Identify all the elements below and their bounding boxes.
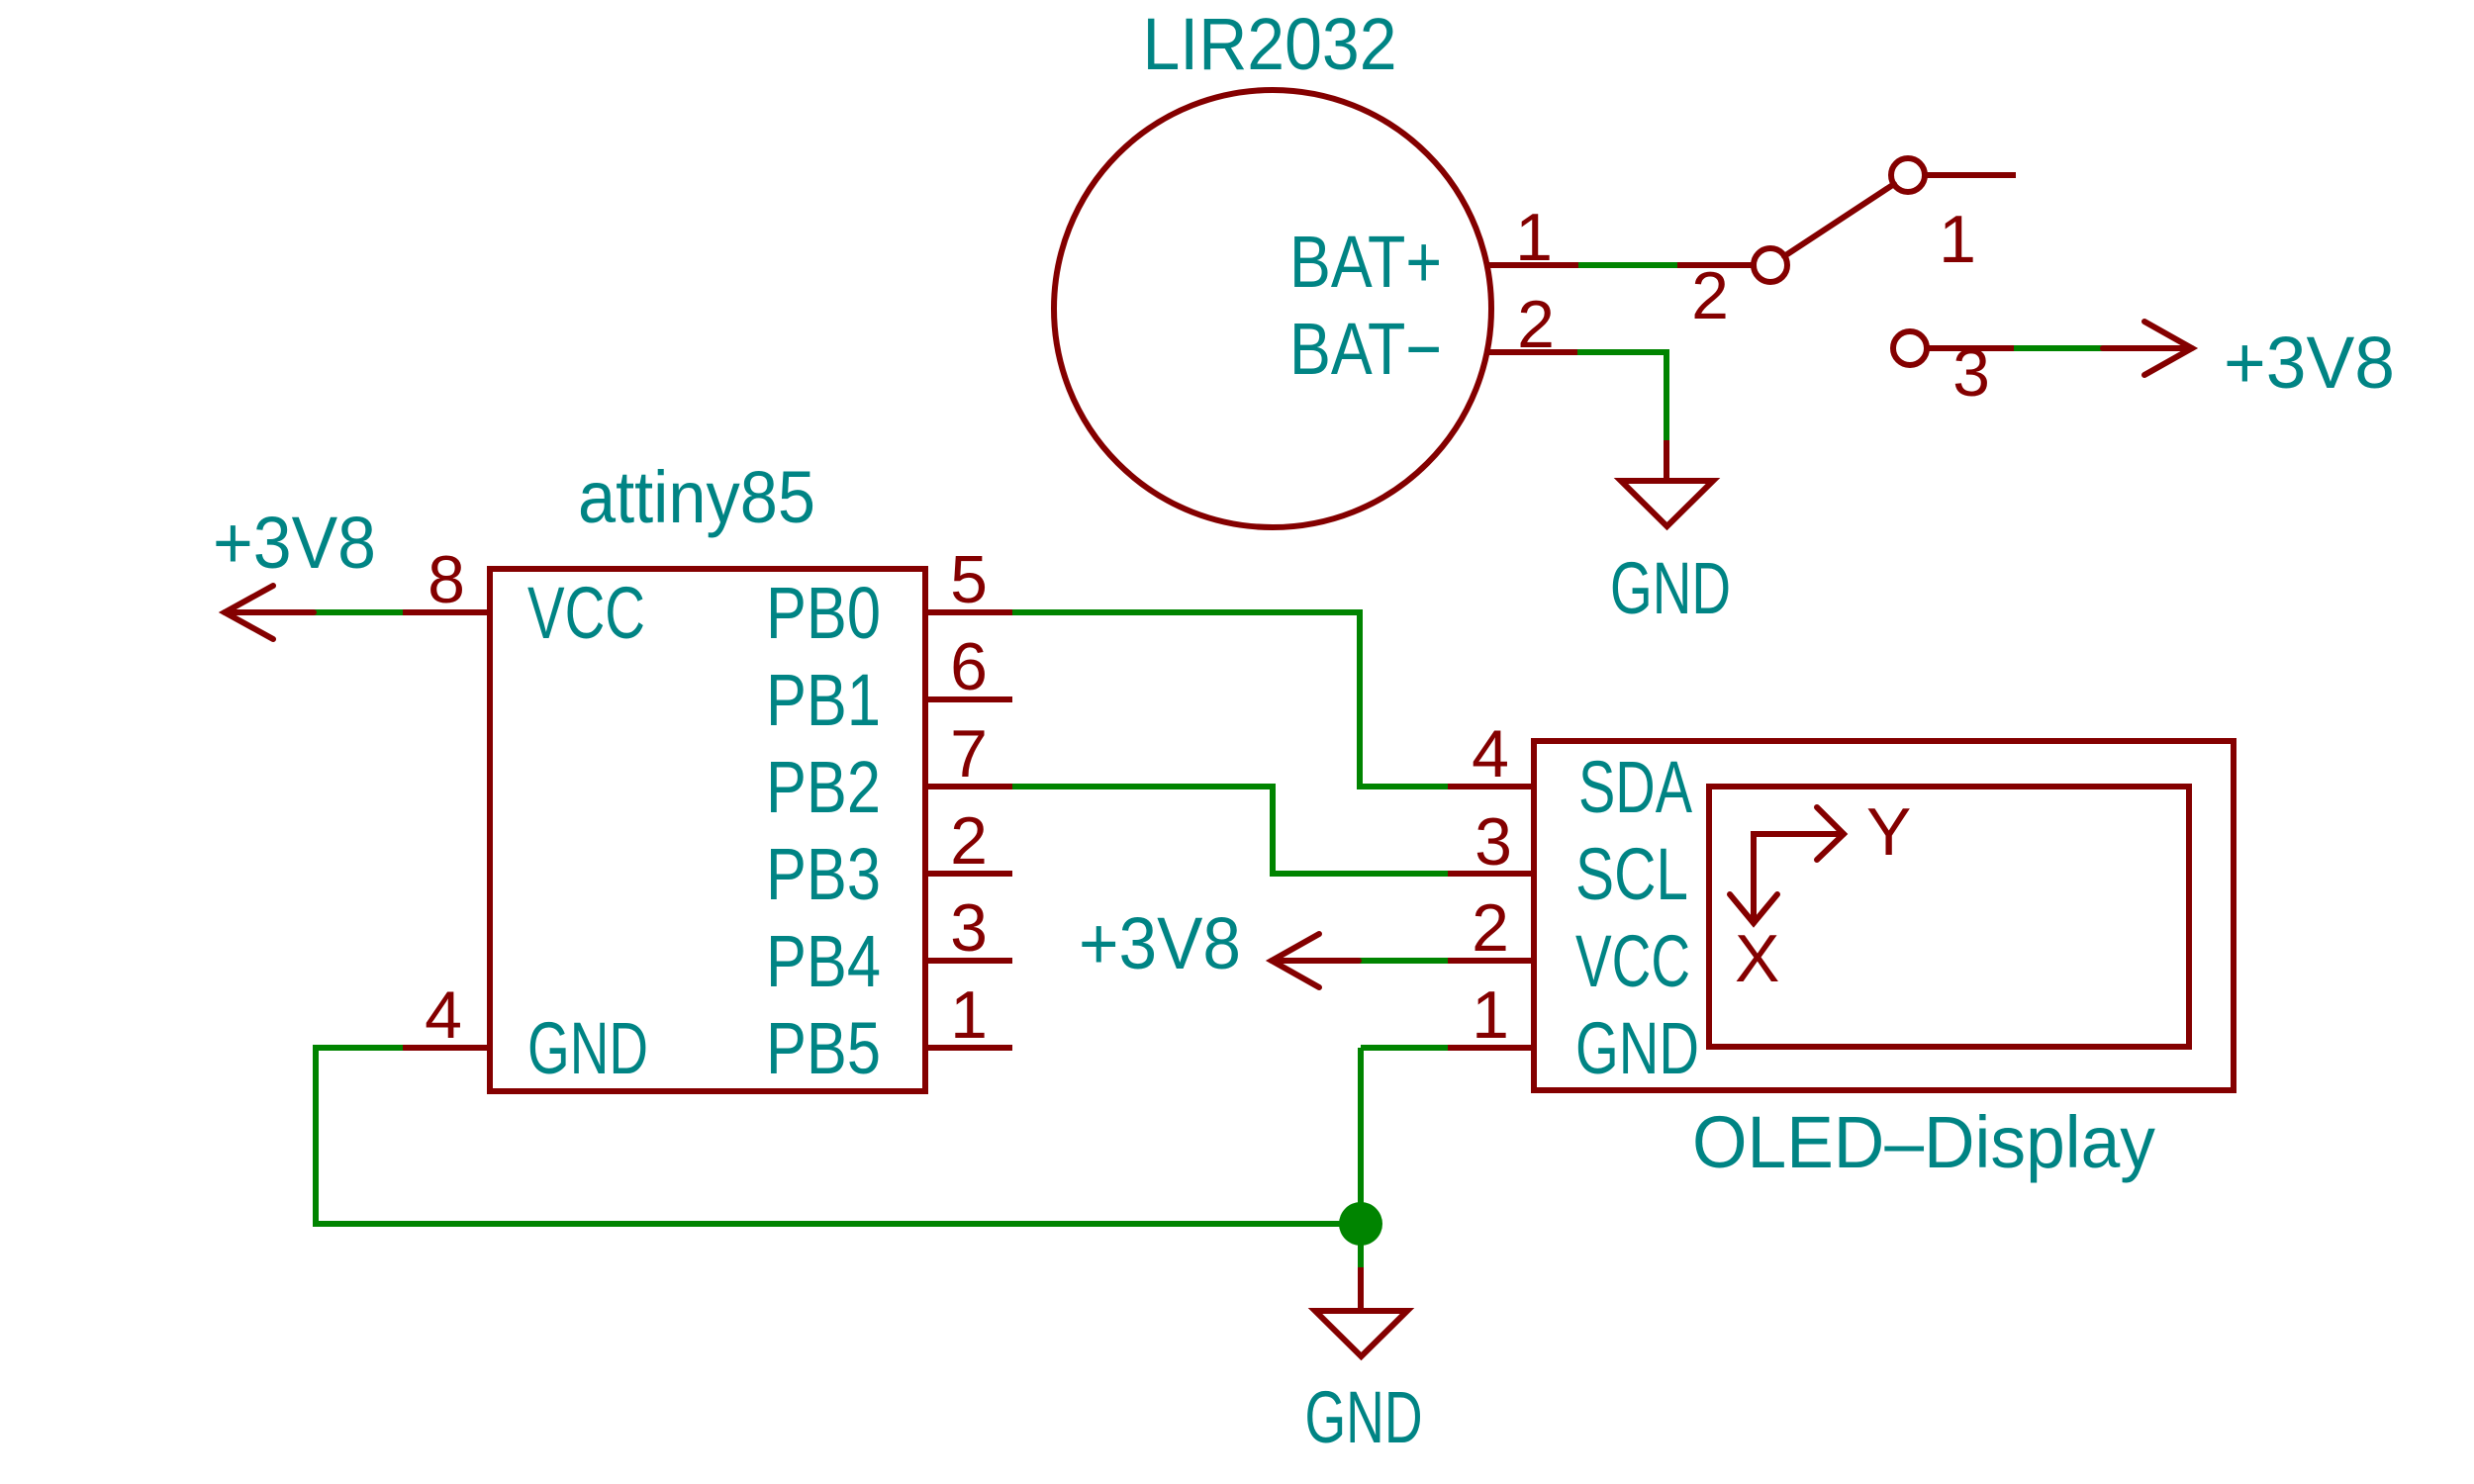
- svg-text:2: 2: [950, 803, 988, 879]
- svg-text:2: 2: [1472, 890, 1509, 966]
- battery pin 1: [1487, 262, 1578, 268]
- svg-text:1: 1: [1939, 202, 1976, 277]
- svg-text:GND: GND: [1575, 1007, 1699, 1089]
- svg-text:LIR2032: LIR2032: [1143, 3, 1397, 85]
- OLED pin 3 SCL: [1448, 871, 1534, 877]
- wire GND net attiny to junction: [316, 1048, 1361, 1224]
- svg-text:8: 8: [428, 542, 465, 617]
- svg-text:1: 1: [1472, 977, 1509, 1053]
- wire PB2 to OLED SCL: [1012, 787, 1448, 874]
- svg-text:PB1: PB1: [766, 659, 881, 741]
- svg-text:+3V8: +3V8: [2224, 322, 2395, 404]
- OLED display screen rectangle: [1709, 787, 2189, 1047]
- svg-text:BAT−: BAT−: [1289, 308, 1442, 390]
- wire switch pin 3 to +3V8: [2014, 345, 2103, 351]
- svg-text:PB3: PB3: [766, 833, 881, 915]
- switch SW1 throw circle 1: [1891, 158, 1925, 192]
- wire junction to OLED GND pin: [1361, 1045, 1448, 1051]
- wire junction stub to ground: [1358, 1224, 1364, 1267]
- svg-text:1: 1: [1515, 200, 1553, 275]
- battery pin 2: [1487, 349, 1577, 355]
- svg-text:PB2: PB2: [766, 746, 881, 828]
- svg-text:3: 3: [1952, 335, 1990, 411]
- wire +3V8 to OLED VCC: [1359, 958, 1448, 964]
- attiny85 pin 1 PB5: [925, 1045, 1012, 1051]
- ground symbol GND (bottom): [1315, 1267, 1407, 1356]
- attiny85 pin 8 VCC: [403, 609, 490, 615]
- OLED pin 1 GND: [1448, 1045, 1534, 1051]
- svg-text:VCC: VCC: [1575, 920, 1690, 1002]
- OLED axis marker arrows: [1730, 807, 1844, 923]
- OLED pin 2 VCC: [1448, 958, 1534, 964]
- svg-text:PB0: PB0: [766, 572, 881, 654]
- svg-text:PB5: PB5: [766, 1007, 881, 1089]
- svg-text:BAT+: BAT+: [1289, 221, 1442, 303]
- attiny85 pin 4 GND: [403, 1045, 490, 1051]
- svg-text:3: 3: [1475, 804, 1512, 880]
- svg-text:2: 2: [1517, 287, 1555, 362]
- svg-text:SCL: SCL: [1575, 833, 1688, 915]
- svg-text:+3V8: +3V8: [213, 502, 376, 584]
- svg-text:GND: GND: [527, 1007, 648, 1089]
- IC U1 attiny85 body: [490, 569, 925, 1091]
- attiny85 pin 5 PB0: [925, 609, 1012, 615]
- switch SW1 pin 3: [1927, 345, 2014, 351]
- OLED display module body: [1534, 741, 2234, 1090]
- wire BAT+ to switch common: [1578, 262, 1677, 268]
- attiny85 pin 2 PB3: [925, 871, 1012, 877]
- svg-text:3: 3: [950, 890, 988, 966]
- switch SW1 common pin 2: [1677, 262, 1754, 268]
- switch SW1 pin 1: [1925, 172, 2016, 178]
- svg-text:5: 5: [950, 542, 988, 617]
- svg-text:X: X: [1735, 921, 1779, 996]
- svg-text:VCC: VCC: [527, 572, 645, 654]
- power symbol +3V8 (middle): [1272, 934, 1359, 987]
- svg-text:Y: Y: [1866, 794, 1911, 870]
- attiny85 pin 6 PB1: [925, 696, 1012, 702]
- switch SW1 throw circle 3: [1893, 331, 1927, 365]
- ground symbol GND (battery): [1621, 440, 1713, 526]
- wire PB0 to OLED SDA: [1012, 612, 1448, 787]
- svg-text:GND: GND: [1305, 1376, 1423, 1458]
- svg-text:attiny85: attiny85: [578, 456, 815, 538]
- svg-text:+3V8: +3V8: [1079, 902, 1241, 984]
- svg-text:GND: GND: [1610, 547, 1731, 629]
- svg-text:2: 2: [1691, 258, 1729, 333]
- svg-text:1: 1: [950, 977, 988, 1053]
- attiny85 pin 7 PB2: [925, 784, 1012, 789]
- svg-text:OLED–Display: OLED–Display: [1692, 1101, 2155, 1183]
- svg-text:PB4: PB4: [766, 920, 881, 1002]
- svg-text:4: 4: [425, 977, 462, 1053]
- svg-text:6: 6: [950, 629, 988, 704]
- junction node: [1339, 1202, 1382, 1246]
- attiny85 pin 3 PB4: [925, 958, 1012, 964]
- svg-text:7: 7: [950, 716, 988, 791]
- svg-text:4: 4: [1472, 716, 1509, 791]
- switch SW1 blade: [1784, 184, 1894, 256]
- svg-text:SDA: SDA: [1578, 746, 1692, 828]
- wire BAT- to GND: [1577, 352, 1666, 440]
- power symbol +3V8 (right): [2103, 322, 2192, 375]
- switch SW1 common pole circle: [1754, 248, 1787, 282]
- wire OLED GND down to junction: [1358, 1048, 1364, 1224]
- OLED pin 4 SDA: [1448, 784, 1534, 789]
- wire attiny VCC to +3V8: [314, 609, 403, 615]
- power symbol +3V8 (left): [225, 586, 314, 639]
- battery BT1 LIR2032 body circle: [1054, 90, 1491, 527]
